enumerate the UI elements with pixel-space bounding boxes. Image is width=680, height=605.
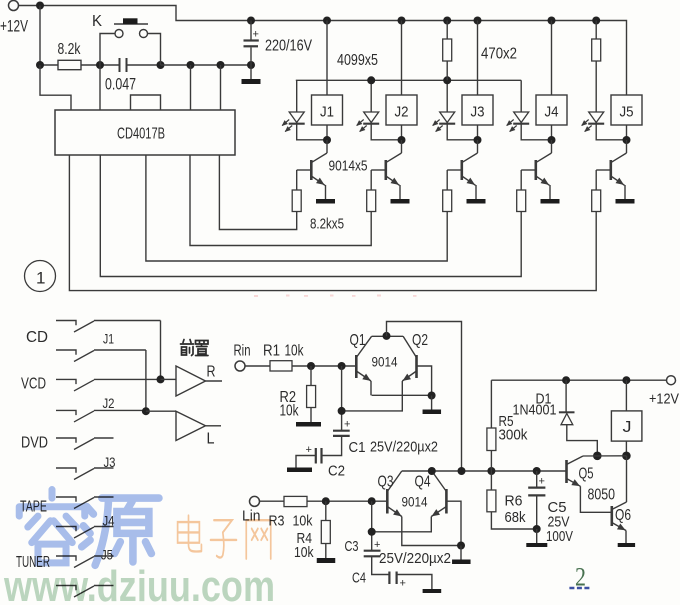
diode D1 1N4001: [565, 380, 567, 412]
svg-text:Q1: Q1: [350, 332, 366, 349]
svg-text:9014: 9014: [372, 355, 398, 370]
Rin terminal: [235, 361, 245, 371]
wire relay J1 to collector node: [326, 125, 328, 140]
wire base tap cell 2: [371, 169, 386, 171]
switch J4 contact: [56, 527, 76, 532]
ground (cell 1): [316, 199, 335, 204]
wire LED cathode to collector node 4: [521, 124, 551, 140]
relay J2: [386, 95, 417, 125]
node collector J5: [623, 136, 631, 144]
node rail above 220/16V cap: [247, 17, 255, 25]
svg-text:VCD: VCD: [21, 376, 46, 393]
svg-text:J3: J3: [471, 104, 485, 121]
svg-text:J5: J5: [620, 104, 634, 121]
wire L node to amp: [146, 410, 176, 412]
node C5 bottom: [533, 525, 541, 533]
wire R output: [206, 380, 223, 382]
wire Q2 base to ground node: [417, 366, 432, 395]
ground (Q6): [618, 543, 635, 547]
wire row right: [161, 64, 252, 66]
resistor 8.2k cell 4: [517, 190, 526, 212]
relay J3: [462, 95, 493, 125]
svg-text:0.047: 0.047: [105, 76, 136, 94]
svg-text:4099x5: 4099x5: [337, 52, 378, 69]
wire base tap cell 5: [596, 169, 611, 171]
svg-text:+12V: +12V: [649, 391, 679, 408]
node row-e: [217, 61, 225, 69]
wire CD row down to R node: [160, 321, 162, 380]
svg-text:+: +: [306, 444, 312, 456]
node R5/R6: [487, 467, 495, 475]
wire relay J3 to collector node: [477, 125, 479, 140]
LED D4: [520, 80, 522, 112]
switch J2 contact: [56, 410, 76, 415]
wire CD4017B output pin 4 routing: [100, 155, 521, 277]
node collector J4: [548, 136, 556, 144]
node C3 tap: [368, 497, 376, 505]
svg-text:R: R: [207, 364, 216, 381]
transistor Q4 9014: [445, 489, 448, 514]
wire VDD step into CD4017B: [40, 65, 71, 110]
resistor 470 #1: [443, 17, 451, 25]
wire +12V rail top: [19, 6, 627, 96]
svg-text:Q2: Q2: [412, 332, 428, 349]
node J bottom: [622, 452, 631, 461]
wire to ground pair1: [431, 396, 433, 410]
switch J3 contact: [56, 468, 76, 473]
node row-f: [247, 61, 255, 69]
resistor 8.2k cell 3: [443, 190, 452, 212]
LED light arrows 3: [433, 120, 440, 126]
wire CD4017B output pin 3 routing: [146, 155, 447, 261]
svg-text:Rin: Rin: [234, 343, 251, 360]
wire input node down to C3: [371, 501, 373, 550]
svg-text:CD: CD: [26, 329, 48, 346]
resistor 8.2k: [58, 60, 81, 69]
wire K right leg: [148, 34, 161, 66]
wire Q1 emitter rail: [372, 394, 432, 396]
svg-text:DVD: DVD: [21, 435, 48, 452]
pin wire top 1: [99, 65, 101, 110]
watermark www.dziuu.com (green): [3, 562, 275, 605]
resistor R2: [310, 366, 312, 386]
svg-text:K: K: [92, 13, 103, 30]
transistor Q2 9014: [415, 355, 418, 378]
svg-text:25V/220µx2: 25V/220µx2: [370, 439, 438, 456]
LED D3: [446, 80, 448, 112]
wire R2 to ground: [310, 408, 312, 423]
node bus LED3: [443, 76, 451, 84]
node rail above J1: [323, 17, 331, 25]
relay J5: [611, 95, 642, 125]
IC U1 CD4017B: [55, 110, 235, 155]
LED D1: [296, 80, 298, 112]
wire input node down to C1: [341, 366, 343, 430]
ground (Q1Q2): [423, 410, 442, 415]
svg-text:10k: 10k: [294, 544, 314, 561]
capacitor C5: [536, 471, 538, 487]
wire CD4017B output pin 2 routing: [190, 155, 371, 246]
LED light arrows 5: [582, 120, 589, 126]
node L input: [142, 407, 150, 415]
svg-text:J2: J2: [103, 396, 115, 411]
LED light arrows 2: [357, 120, 364, 126]
op-amp R channel: [176, 366, 206, 396]
wire C1 to C2: [322, 436, 342, 456]
node collector J3: [474, 136, 482, 144]
wire rail to J1: [326, 21, 328, 96]
+12V terminal (top left): [9, 1, 19, 11]
wire relay J2 to collector node: [401, 125, 403, 140]
wire C4 to ground: [397, 575, 432, 590]
svg-text:CD4017B: CD4017B: [117, 126, 165, 143]
watermark dianziwang (orange): [178, 516, 271, 559]
node row-c: [157, 61, 165, 69]
svg-text:9014: 9014: [402, 495, 428, 510]
LED light arrows 1: [282, 120, 289, 126]
capacitor 0.047: [119, 58, 121, 72]
relay J: [625, 380, 627, 411]
node collector J1: [323, 136, 331, 144]
wire cap to ground: [250, 65, 252, 79]
node R input: [157, 375, 165, 383]
switch J5 contact: [56, 586, 76, 591]
svg-text:J: J: [623, 419, 632, 436]
svg-text:Q6: Q6: [615, 507, 631, 524]
svg-text:J2: J2: [395, 104, 409, 121]
node VAS feed: [458, 467, 466, 475]
ground (R2): [296, 422, 321, 427]
wire Q4 base to ground node: [446, 501, 461, 545]
svg-text:1N4001: 1N4001: [513, 402, 557, 419]
ground (220/16V cap): [242, 79, 261, 84]
wire LED cathode to collector node 5: [596, 124, 626, 140]
node rail above J4: [548, 17, 556, 25]
node emitter/ground Q3Q4: [457, 542, 465, 550]
wire Rin to R1: [245, 365, 270, 367]
figure 2 dashed underline: [569, 587, 589, 589]
node rail above J3: [474, 17, 482, 25]
label 前置 (preamp): [181, 340, 209, 356]
ground (C2): [287, 468, 312, 473]
faint red watermark remnant: [254, 295, 417, 298]
wire to ground pair2: [460, 546, 462, 560]
wire R3 to Q3 base: [307, 500, 387, 502]
switch J1 contact: [56, 350, 76, 355]
pin wire top 3: [220, 65, 222, 110]
svg-text:C3: C3: [345, 538, 359, 555]
wire LED cathode to collector node 1: [297, 124, 327, 140]
wire relay J5 to collector node: [626, 125, 628, 140]
wire base tap cell 3: [447, 169, 462, 171]
resistor 8.2k cell 2: [367, 190, 376, 212]
wire J1 row down to L node: [145, 350, 147, 411]
wire CD4017B output pin 1 routing: [219, 155, 296, 230]
wire L output: [206, 425, 222, 427]
Lin terminal: [250, 496, 260, 506]
wire K left leg: [100, 34, 115, 66]
relay J1: [312, 95, 343, 125]
wire CD4017B output pin 5 routing: [69, 155, 596, 291]
node rail above J2: [398, 17, 406, 25]
svg-text:68k: 68k: [505, 509, 526, 526]
wire R1 to Q1 base: [292, 365, 356, 367]
VCD switch: [56, 379, 76, 384]
wire down from +12V to oscillator row: [39, 6, 41, 66]
TAPE switch: [56, 497, 76, 502]
wire base tap cell 4: [521, 169, 536, 171]
capacitor C3: [364, 550, 381, 552]
svg-text:Q3: Q3: [378, 474, 394, 491]
resistor R4: [325, 501, 327, 520]
node collectors Q1Q2: [383, 332, 391, 340]
node rail-junction A: [36, 2, 44, 10]
transistor Q1 9014: [355, 355, 358, 378]
watermark rong (blue): [19, 490, 159, 566]
wire Lin to R3: [260, 500, 285, 502]
svg-text:+: +: [253, 29, 259, 41]
node C1 top: [338, 407, 346, 415]
transistor V1 9014: [326, 140, 328, 153]
transistor Q5 8050: [565, 460, 568, 483]
wire collector node to VAS line: [387, 322, 462, 472]
resistor R6: [490, 471, 492, 490]
svg-text:+12V: +12V: [0, 18, 28, 36]
resistor R5: [490, 380, 492, 428]
wire base tap cell 1: [297, 169, 312, 171]
wire R node to amp: [161, 378, 177, 380]
resistor R1: [270, 361, 292, 371]
svg-text:8.2k: 8.2k: [58, 41, 82, 58]
transistor V3 9014: [477, 140, 479, 153]
transistor V4 9014: [551, 140, 553, 153]
wire rail to J3: [477, 21, 479, 96]
node Q4 collector: [428, 467, 436, 475]
figure label 1 (circled): [25, 261, 56, 292]
svg-text:C4: C4: [352, 570, 366, 587]
svg-text:Q5: Q5: [579, 466, 594, 483]
svg-text:300k: 300k: [499, 427, 528, 444]
wire relay J4 to collector node: [551, 125, 553, 140]
LED D2: [370, 80, 372, 112]
svg-text:1: 1: [36, 269, 45, 288]
ground (cell 3): [467, 199, 486, 204]
node J: [622, 376, 630, 384]
capacitor C4: [388, 572, 390, 585]
svg-text:100V: 100V: [546, 528, 573, 545]
wire rail to J2: [401, 21, 403, 96]
svg-text:J3: J3: [104, 455, 116, 470]
TUNER switch: [56, 556, 76, 561]
svg-text:J4: J4: [545, 104, 559, 121]
wire rail to J4: [551, 21, 553, 96]
svg-text:J1: J1: [320, 104, 334, 121]
CD switch (R): [56, 321, 76, 326]
svg-text:8.2kx5: 8.2kx5: [310, 216, 344, 233]
DVD switch: [56, 438, 76, 443]
pin wire top 2: [190, 65, 192, 110]
svg-text:25V/220µx2: 25V/220µx2: [379, 550, 451, 567]
transistor V2 9014: [401, 140, 403, 153]
node emitter/ground Q1Q2: [428, 392, 436, 400]
svg-text:470x2: 470x2: [481, 46, 517, 63]
LED light arrows 4: [507, 120, 514, 126]
capacitor C1: [333, 430, 350, 432]
svg-text:Lin: Lin: [242, 508, 261, 525]
node C1 tap: [338, 362, 346, 370]
ground (cell 2): [391, 199, 410, 204]
svg-text:C1: C1: [349, 439, 366, 456]
wire Q6 emitter to ground: [625, 531, 627, 544]
+12V rail (bottom): [491, 379, 666, 381]
node R1/R2: [307, 362, 315, 370]
wire Q3 emitter down: [402, 517, 461, 546]
wire LED cathode to collector node 2: [371, 124, 401, 140]
ground (cell 5): [616, 199, 635, 204]
ground (C4): [423, 589, 442, 593]
resistor 470 #2: [592, 17, 600, 25]
ground (R4): [317, 558, 336, 563]
wire C3 to C4: [372, 556, 389, 574]
node bus LED2: [367, 76, 375, 84]
relay J4: [536, 95, 567, 125]
capacitor 220/16V: [250, 21, 252, 40]
ground (cell 4): [541, 199, 560, 204]
svg-text:R1: R1: [263, 343, 280, 360]
wire LED anode bus: [296, 79, 521, 81]
ground (Q3Q4): [452, 560, 471, 565]
wire Q4 emitter to C3 node: [372, 517, 432, 532]
transistor Q3 9014: [386, 489, 389, 514]
node row-left: [36, 61, 44, 69]
node collector J2: [398, 136, 406, 144]
node Q5 collector: [593, 452, 602, 461]
resistor 8.2k cell 5: [592, 190, 601, 212]
svg-text:+: +: [539, 476, 545, 488]
wire collector rail (signal line): [402, 470, 566, 472]
svg-text:R6: R6: [505, 493, 523, 510]
pin tab on top of CD4017B: [131, 95, 161, 110]
node row-b: [96, 61, 104, 69]
transistor V5 9014: [626, 140, 628, 153]
wire Q5 emitter to Q6 base: [580, 486, 611, 512]
svg-text:10k: 10k: [280, 403, 300, 420]
svg-text:10k: 10k: [293, 513, 313, 530]
svg-text:www.dziuu.com: www.dziuu.com: [3, 562, 275, 605]
svg-text:220/16V: 220/16V: [265, 38, 312, 55]
node C3 top: [368, 528, 376, 536]
wire cap to node c: [128, 64, 161, 66]
node row-d: [187, 61, 195, 69]
node C5: [533, 467, 541, 475]
svg-text:L: L: [207, 431, 215, 448]
svg-text:10k: 10k: [285, 343, 305, 360]
wire LED cathode to collector node 3: [447, 124, 477, 140]
wire 8.2k to cap 0.047: [81, 64, 119, 66]
resistor 8.2k cell 1: [292, 190, 301, 212]
svg-text:Q4: Q4: [415, 474, 431, 491]
svg-text:9014x5: 9014x5: [329, 158, 368, 175]
svg-text:J1: J1: [103, 332, 114, 347]
wire Q2 emitter to C1 node: [342, 381, 403, 411]
capacitor C2: [320, 448, 322, 464]
wire R4 to ground: [325, 544, 327, 559]
op-amp L channel: [176, 411, 206, 440]
svg-text:+: +: [344, 419, 350, 431]
svg-text:C2: C2: [328, 463, 345, 480]
wire C5 to ground: [536, 529, 538, 543]
wire J bottom: [625, 441, 627, 456]
wire Q1-Q2 collector tie: [372, 335, 404, 337]
LED D5: [589, 112, 604, 123]
+12V terminal (bottom): [667, 376, 676, 385]
wire C2 to ground: [296, 456, 316, 468]
node D1: [562, 376, 570, 384]
svg-text:+: +: [400, 578, 406, 590]
wire row left: [40, 64, 58, 66]
ground (C5/R6): [526, 543, 547, 547]
transistor Q6 8050: [610, 506, 613, 526]
resistor R3: [284, 496, 307, 506]
svg-text:8050: 8050: [588, 487, 616, 504]
node R3/R4: [322, 497, 330, 505]
